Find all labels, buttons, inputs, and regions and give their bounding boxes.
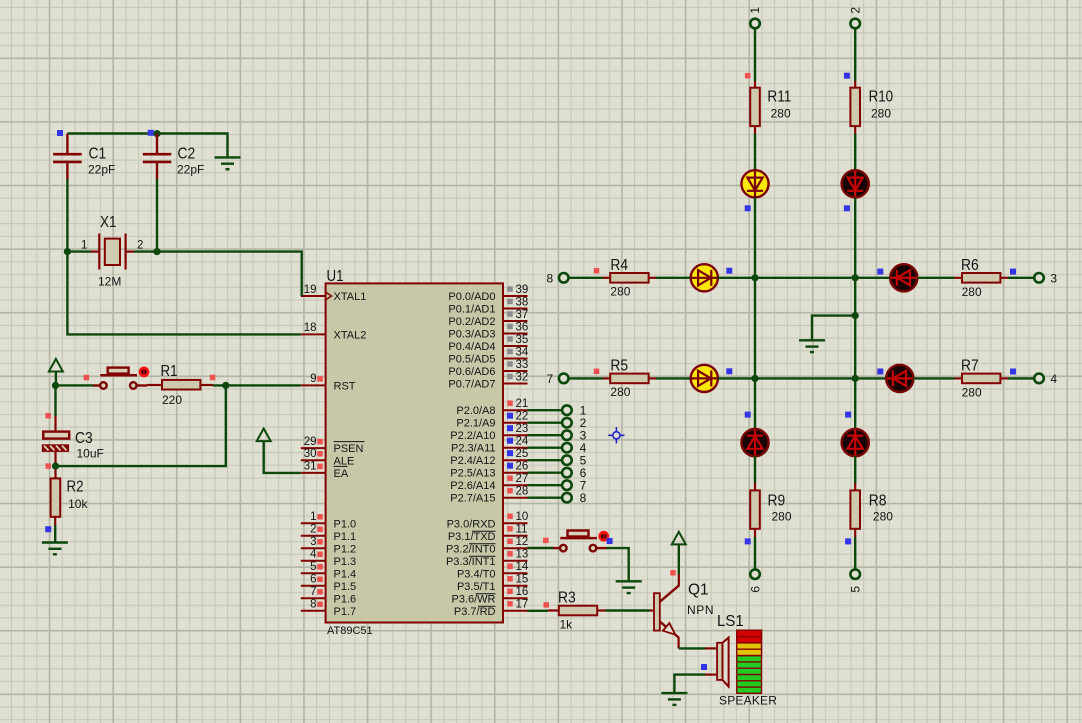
wire R1 right down and across to C3 bottom: [56, 385, 226, 466]
svg-text:P1.5: P1.5: [334, 581, 357, 593]
svg-text:P3.4/T0: P3.4/T0: [457, 568, 496, 580]
resistor R8: [850, 483, 893, 537]
wire terminal 7 to R5: [568, 377, 603, 379]
wire crystal pin2 to XTAL1 pin: [157, 252, 302, 296]
svg-text:XTAL1: XTAL1: [334, 291, 367, 303]
svg-text:5: 5: [849, 586, 863, 593]
svg-text:P2.2/A10: P2.2/A10: [450, 430, 495, 442]
svg-text:280: 280: [873, 510, 893, 524]
svg-text:P0.5/AD5: P0.5/AD5: [448, 354, 495, 366]
push button (RST): [93, 368, 147, 389]
svg-text:280: 280: [610, 385, 630, 399]
node marker blue square: [745, 412, 751, 418]
wire LED to columns row2: [718, 377, 887, 379]
junction at C2 top: [153, 130, 160, 137]
svg-text:23: 23: [516, 423, 529, 435]
resistor R5: [603, 358, 656, 399]
svg-text:R2: R2: [67, 479, 84, 496]
svg-text:P2.5/A13: P2.5/A13: [450, 468, 495, 480]
LED (red, off, up): [842, 429, 869, 456]
node P2.7 terminal 8: [562, 493, 572, 503]
wire column B row2 down to LED: [854, 378, 856, 429]
wire column A row2 down to LED: [754, 378, 756, 429]
svg-text:Q1: Q1: [688, 582, 709, 599]
svg-text:10: 10: [516, 511, 529, 523]
wire LED to R8: [854, 456, 856, 483]
svg-text:16: 16: [516, 586, 529, 598]
node marker blue square: [701, 664, 707, 670]
capacitor C1: [53, 134, 115, 181]
junction crystal pin 2: [153, 248, 160, 255]
svg-text:P0.3/AD3: P0.3/AD3: [448, 329, 495, 341]
svg-text:10k: 10k: [68, 497, 88, 511]
wire LED to R6: [917, 277, 954, 279]
svg-text:X1: X1: [100, 214, 117, 231]
svg-text:P1.6: P1.6: [334, 593, 357, 605]
svg-text:R5: R5: [610, 358, 628, 375]
svg-text:28: 28: [516, 486, 529, 498]
svg-text:280: 280: [772, 510, 792, 524]
node P2.6 terminal 7: [562, 480, 572, 490]
node marker blue square: [726, 368, 732, 374]
svg-text:39: 39: [516, 284, 529, 296]
node marker red square: [45, 463, 51, 469]
svg-text:30: 30: [304, 448, 317, 460]
node marker red square: [210, 375, 216, 381]
svg-text:P2.6/A14: P2.6/A14: [450, 480, 495, 492]
svg-text:R10: R10: [869, 89, 894, 106]
resistor R9: [750, 483, 792, 537]
svg-text:P0.2/AD2: P0.2/AD2: [448, 316, 495, 328]
terminal digit labels: [580, 404, 587, 506]
junction row2 column A: [751, 375, 758, 382]
U1 left pin marker squares: [317, 376, 323, 607]
wire R10 to LED: [854, 134, 856, 171]
node marker blue square: [844, 73, 850, 79]
svg-text:9: 9: [310, 373, 316, 385]
wire R9 to terminal 6: [754, 537, 756, 570]
node marker blue square: [745, 205, 751, 211]
svg-text:19: 19: [304, 284, 317, 296]
wire P3.2/INT0 to button: [528, 547, 555, 549]
svg-text:P0.0/AD0: P0.0/AD0: [448, 291, 495, 303]
ground (speaker): [661, 693, 687, 705]
svg-text:P1.3: P1.3: [334, 556, 357, 568]
button red indicator: [600, 532, 608, 540]
svg-text:12M: 12M: [98, 275, 121, 289]
svg-text:35: 35: [516, 334, 529, 346]
svg-text:5: 5: [310, 561, 316, 573]
wire Q1 emitter to speaker: [679, 647, 705, 649]
LED (yellow, right): [691, 264, 718, 291]
wire R8 to terminal 5: [854, 537, 856, 570]
svg-text:P2.1/A9: P2.1/A9: [456, 418, 495, 430]
LED (red, off, up): [741, 429, 768, 456]
wire C1 top to C2 top to ground (net XTAL top rail): [67, 134, 227, 157]
node marker blue square: [726, 268, 732, 274]
resistor R4: [603, 257, 656, 299]
LED (red, off, left): [890, 264, 917, 291]
wire terminal 8 to R4: [568, 277, 603, 279]
node marker red square: [670, 570, 676, 576]
svg-text:32: 32: [516, 371, 529, 383]
svg-text:P2.4/A12: P2.4/A12: [450, 455, 495, 467]
svg-text:P1.0: P1.0: [334, 518, 357, 530]
node P2.5 terminal 6: [562, 468, 572, 478]
node P2.0 terminal 1: [562, 405, 572, 415]
svg-text:P0.1/AD1: P0.1/AD1: [448, 304, 495, 316]
svg-text:37: 37: [516, 309, 529, 321]
wire power to collector: [678, 544, 680, 574]
svg-text:15: 15: [516, 574, 529, 586]
svg-text:XTAL2: XTAL2: [334, 329, 367, 341]
wire speaker to ground: [674, 675, 705, 693]
node P2.1 terminal 2: [562, 418, 572, 428]
wire R3 to Q1 base: [606, 609, 650, 611]
svg-text:NPN: NPN: [687, 603, 714, 617]
node P2.2 terminal 3: [562, 430, 572, 440]
junction row1 column B: [852, 274, 859, 281]
svg-text:26: 26: [516, 461, 529, 473]
wire R7 to terminal 4: [1008, 377, 1035, 379]
wire R6 to terminal 3: [1008, 277, 1035, 279]
svg-text:2: 2: [310, 524, 316, 536]
wire R1 to RST pin: [213, 384, 301, 386]
svg-text:36: 36: [516, 321, 529, 333]
wire R11 to LED: [754, 134, 756, 171]
resistor R2: [51, 470, 89, 525]
svg-text:P2.0/A8: P2.0/A8: [456, 405, 495, 417]
node marker blue square: [877, 269, 883, 275]
svg-text:12: 12: [516, 536, 529, 548]
svg-text:11: 11: [516, 524, 528, 536]
svg-text:SPEAKER: SPEAKER: [719, 694, 777, 708]
junction R1 right: [222, 382, 229, 389]
node marker blue square: [877, 369, 883, 375]
U1 right pin names: [446, 291, 496, 618]
node marker blue square: [844, 205, 850, 211]
junction column B ground tap: [852, 312, 859, 319]
svg-text:22pF: 22pF: [88, 163, 115, 177]
svg-text:2: 2: [137, 240, 143, 252]
svg-text:LS1: LS1: [717, 613, 744, 630]
node marker blue square: [1010, 269, 1016, 275]
resistor R7: [955, 357, 1009, 399]
svg-text:22: 22: [516, 411, 529, 423]
resistor R6: [955, 257, 1009, 299]
wire button to ground: [606, 548, 629, 580]
wire crystal right pin: [134, 250, 157, 252]
wire LED to R9: [754, 456, 756, 483]
svg-text:P3.7/RD: P3.7/RD: [454, 606, 496, 618]
svg-text:220: 220: [162, 393, 182, 407]
svg-text:3: 3: [1050, 271, 1057, 285]
wires P2.0-P2.7 to terminals: [528, 410, 563, 498]
U1 right pin stubs: [503, 296, 528, 611]
node marker blue square at C2 top: [148, 130, 154, 136]
ground (INT0 button): [616, 581, 642, 593]
wire power to EA pin: [264, 441, 301, 473]
svg-text:7: 7: [310, 586, 316, 598]
svg-text:1: 1: [310, 511, 316, 523]
svg-text:1: 1: [81, 240, 87, 252]
LED (red, off, left): [886, 365, 913, 392]
node terminal 5: [850, 569, 860, 579]
node terminal 7 (row2 left): [559, 374, 569, 384]
button red indicator: [140, 368, 148, 376]
svg-text:P1.7: P1.7: [334, 606, 357, 618]
svg-text:10uF: 10uF: [77, 447, 104, 461]
svg-text:P3.3/INT1: P3.3/INT1: [446, 556, 496, 568]
svg-text:4: 4: [310, 549, 317, 561]
node marker blue square: [45, 526, 51, 532]
svg-text:P1.4: P1.4: [334, 568, 357, 580]
svg-text:P0.6/AD6: P0.6/AD6: [448, 366, 495, 378]
node marker blue square: [1010, 369, 1016, 375]
op-amp U1 (AT89C51 microcontroller body): [326, 268, 503, 637]
svg-text:P2.7/A15: P2.7/A15: [450, 493, 495, 505]
svg-text:ALE: ALE: [334, 455, 355, 467]
LED D (yellow, down): [741, 170, 768, 197]
svg-text:C3: C3: [75, 430, 93, 447]
svg-text:1k: 1k: [560, 618, 574, 632]
node origin marker (blue crosshair): [608, 427, 624, 443]
svg-text:29: 29: [304, 436, 317, 448]
svg-text:R8: R8: [869, 492, 887, 509]
svg-text:25: 25: [516, 448, 529, 460]
wire column B top: [854, 28, 856, 81]
wire R4 to LED: [656, 277, 691, 279]
svg-text:U1: U1: [327, 268, 344, 285]
svg-text:280: 280: [962, 285, 982, 299]
svg-text:R7: R7: [961, 357, 979, 374]
ground (R2): [42, 543, 68, 555]
wire P3.7/RD to R3: [528, 610, 549, 612]
node marker blue square: [845, 412, 851, 418]
node marker red square: [594, 369, 600, 375]
wire LED to row1: [754, 198, 756, 278]
node marker red square: [543, 602, 549, 608]
node terminal 8 (row1 left): [559, 273, 569, 283]
svg-text:P3.5/T1: P3.5/T1: [457, 581, 496, 593]
svg-text:24: 24: [516, 436, 529, 448]
svg-text:280: 280: [610, 284, 630, 298]
junction RST rail: [52, 382, 59, 389]
resistor R3: [548, 590, 606, 632]
node terminal 3: [1034, 273, 1044, 283]
node terminal 1 (top left column): [750, 19, 760, 29]
ground (LED matrix): [799, 340, 825, 352]
wire power to RST rail: [55, 372, 57, 386]
svg-text:R11: R11: [767, 89, 791, 106]
svg-text:7: 7: [547, 372, 554, 386]
svg-text:18: 18: [304, 322, 317, 334]
svg-text:8: 8: [580, 491, 587, 505]
svg-text:280: 280: [771, 107, 791, 121]
wire column A row1-row2: [754, 278, 756, 379]
resistor R1: [147, 363, 213, 407]
svg-text:1: 1: [748, 7, 762, 14]
node terminal 4: [1034, 374, 1044, 384]
node marker blue square at C1 top: [57, 130, 63, 136]
pin 19 clock input arrow: [326, 292, 332, 300]
svg-text:33: 33: [516, 359, 529, 371]
U1 left pin numbers: [304, 284, 317, 611]
U1 right pin numbers: [516, 284, 529, 611]
wire C2 bottom down to crystal pin 2: [156, 179, 158, 252]
svg-text:P1.2: P1.2: [334, 543, 357, 555]
node marker red square: [543, 538, 549, 544]
junction C3 bottom: [52, 463, 59, 470]
junction crystal pin 1: [64, 248, 71, 255]
svg-text:P1.1: P1.1: [334, 531, 357, 543]
svg-text:P2.3/A11: P2.3/A11: [451, 443, 495, 455]
push button (INT0): [553, 531, 607, 552]
capacitor C3 (electrolytic): [42, 416, 104, 470]
svg-text:P3.6/WR: P3.6/WR: [451, 593, 495, 605]
svg-text:38: 38: [516, 296, 529, 308]
wire LED to R7: [913, 377, 954, 379]
wire C1 bottom down to XTAL2 pin: [67, 179, 300, 334]
wire crystal left pin: [67, 250, 91, 252]
svg-text:PSEN: PSEN: [334, 443, 364, 455]
U1 left pin stubs: [301, 296, 326, 611]
node terminal 6: [750, 569, 760, 579]
svg-text:P3.0/RXD: P3.0/RXD: [447, 518, 496, 530]
svg-text:P3.1/TXD: P3.1/TXD: [448, 531, 496, 543]
node marker red square: [594, 268, 600, 274]
U1 right pin marker squares: [507, 286, 513, 606]
svg-text:C1: C1: [89, 146, 107, 163]
junction row2 column B: [852, 375, 859, 382]
svg-text:27: 27: [516, 473, 529, 485]
wire column B row1-row2: [854, 278, 856, 379]
wire RST rail to button: [56, 384, 95, 386]
svg-text:17: 17: [516, 599, 529, 611]
svg-text:R3: R3: [558, 590, 576, 607]
node P2.3 terminal 4: [562, 443, 572, 453]
svg-text:EA: EA: [334, 468, 349, 480]
svg-text:31: 31: [304, 461, 317, 473]
svg-text:280: 280: [871, 107, 891, 121]
node marker blue square: [607, 538, 613, 544]
node marker blue square: [845, 538, 851, 544]
power symbol (Q1 collector): [672, 532, 686, 545]
crystal X1: [81, 214, 143, 289]
svg-text:3: 3: [310, 536, 316, 548]
svg-text:6: 6: [310, 574, 316, 586]
svg-text:34: 34: [516, 346, 529, 358]
speaker LS1: [705, 613, 777, 708]
svg-text:R4: R4: [610, 257, 628, 274]
resistor R11: [750, 81, 791, 134]
svg-text:4: 4: [1050, 372, 1057, 386]
svg-text:8: 8: [310, 599, 316, 611]
svg-text:P3.2/INT0: P3.2/INT0: [446, 543, 496, 555]
svg-text:2: 2: [849, 7, 863, 14]
power symbol (RST rail): [49, 359, 63, 372]
power symbol (EA pin): [257, 429, 271, 442]
node terminal 2 (top right column): [850, 19, 860, 29]
svg-text:21: 21: [516, 398, 529, 410]
LED (yellow, right): [691, 365, 718, 392]
svg-text:R1: R1: [161, 363, 178, 380]
wire R2 to ground: [54, 525, 56, 542]
svg-text:C2: C2: [178, 146, 196, 163]
junction row1 column A: [751, 274, 758, 281]
capacitor C2: [143, 134, 205, 181]
resistor R10: [850, 81, 893, 134]
wire column A top: [754, 28, 756, 81]
wire RST rail down to C3: [54, 385, 56, 416]
svg-text:P0.4/AD4: P0.4/AD4: [448, 341, 495, 353]
wire LED to columns row1: [718, 277, 891, 279]
svg-text:R9: R9: [768, 492, 786, 509]
LED (red, off, down): [842, 170, 869, 197]
svg-text:AT89C51: AT89C51: [327, 625, 373, 637]
svg-text:13: 13: [516, 549, 529, 561]
transistor Q1: [650, 573, 715, 648]
svg-text:22pF: 22pF: [177, 163, 204, 177]
svg-text:P0.7/AD7: P0.7/AD7: [448, 379, 495, 391]
wire R5 to LED: [656, 377, 691, 379]
wire LED to row1: [854, 198, 856, 278]
svg-text:RST: RST: [334, 380, 356, 392]
svg-text:14: 14: [516, 561, 529, 573]
svg-text:6: 6: [749, 586, 763, 593]
svg-text:280: 280: [962, 386, 982, 400]
node marker red square: [45, 413, 51, 419]
node marker blue square: [745, 538, 751, 544]
wire ground tap: [812, 316, 855, 340]
svg-text:8: 8: [547, 271, 554, 285]
ground (crystal rail): [215, 157, 241, 169]
node marker red square: [745, 73, 751, 79]
U1 left pin names: [334, 291, 367, 618]
svg-text:R6: R6: [961, 257, 979, 274]
node P2.4 terminal 5: [562, 455, 572, 465]
node marker red square: [84, 375, 90, 381]
